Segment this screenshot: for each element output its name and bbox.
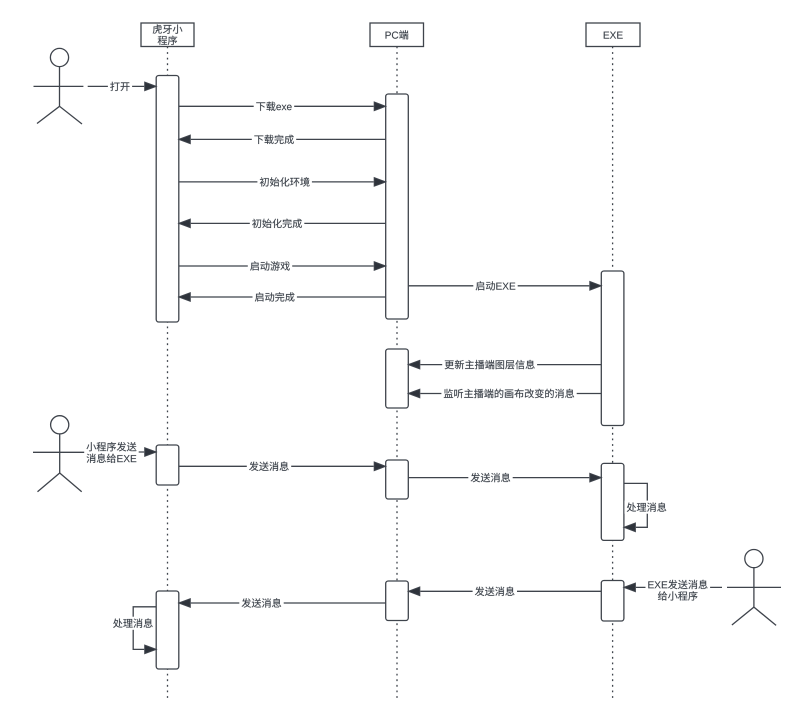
message 更新主播端图层信息 (408, 358, 601, 371)
actor user middle-left (33, 416, 86, 492)
message 发送消息 EXE到PC (408, 585, 601, 598)
activation bar 虎牙小程序 #2 (156, 445, 179, 485)
message 启动游戏 (179, 259, 386, 272)
message 初始化环境 (179, 175, 386, 188)
message 发送消息 PC到虎牙 (179, 597, 386, 610)
actor user top-left (34, 48, 84, 124)
activation bar 虎牙小程序 #1 (156, 76, 179, 323)
message 启动EXE (408, 279, 601, 292)
activation bar EXE #3 (601, 581, 624, 622)
actor user bottom-right (727, 550, 781, 626)
message 下载exe (179, 100, 386, 113)
activation bar PC端 #4 (386, 581, 409, 621)
message 打开 (88, 80, 157, 93)
message 下载完成 (179, 133, 386, 146)
activation bar PC端 #3 (386, 460, 409, 499)
activation bar PC端 #2 (386, 349, 409, 408)
self message 处理消息 EXE (624, 483, 669, 531)
message 小程序发送消息给EXE (84, 440, 156, 465)
message 启动完成 (179, 290, 386, 303)
participant header PC端 (370, 23, 424, 47)
participant header 虎牙小程序 (141, 23, 194, 47)
message EXE发送消息给小程序 (624, 578, 722, 602)
activation bar EXE #2 (601, 463, 624, 540)
lifeline EXE (612, 47, 614, 701)
activation bar PC端 #1 (386, 94, 409, 319)
lifeline 虎牙小程序 (167, 47, 169, 701)
message 监听主播端的画布改变的消息 (408, 387, 601, 400)
lifeline PC端 (396, 47, 398, 701)
message 发送消息 虎牙到PC (179, 460, 386, 473)
self message 处理消息 虎牙小程序 (111, 607, 156, 654)
message 初始化完成 (179, 217, 386, 230)
activation bar EXE #1 (601, 271, 624, 426)
participant header EXE (586, 23, 640, 47)
activation bar 虎牙小程序 #3 (156, 591, 179, 669)
message 发送消息 PC到EXE (408, 471, 601, 484)
